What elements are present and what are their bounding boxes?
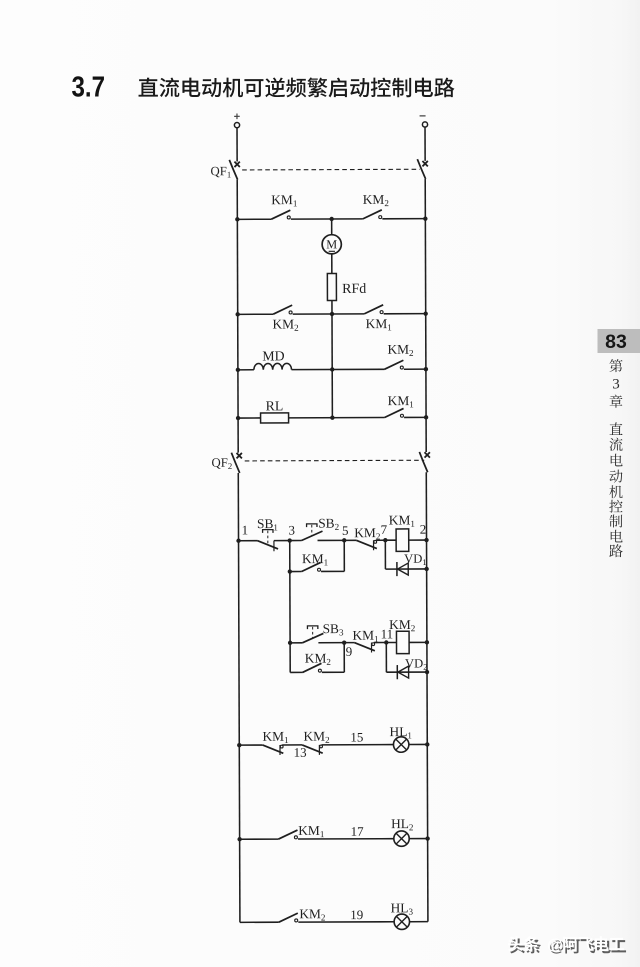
positive supply terminal + bbox=[234, 114, 240, 128]
node junction HL1 left rail bbox=[237, 743, 241, 747]
wire KM2 to node 7 bbox=[376, 539, 385, 541]
node junction left rail row4 bbox=[236, 416, 240, 420]
inductor MD bbox=[254, 363, 292, 369]
lamp HL1 bbox=[393, 737, 408, 752]
contact KM2 normally closed HL1 bbox=[302, 745, 323, 755]
contact KM2 self-hold bbox=[302, 663, 321, 672]
right rail wire row1 to QF2 bbox=[424, 219, 427, 452]
svg-text:9: 9 bbox=[346, 644, 353, 659]
watermark 头条@阿飞电工 bbox=[510, 938, 626, 955]
wire KM1 to node 11 bbox=[374, 642, 386, 644]
wire VD2 branch horizontal bbox=[386, 671, 427, 673]
right rail wire rung2 to bottom bbox=[427, 642, 428, 921]
node junction left rail row3 bbox=[236, 368, 240, 372]
node junction rung2 right rail bbox=[425, 640, 429, 644]
wire row3 rail to MD bbox=[238, 369, 254, 371]
contact KM2 normally closed rung1 bbox=[356, 540, 377, 550]
wire coil KM2 to right rail bbox=[409, 641, 427, 643]
node 3 junction bbox=[288, 538, 292, 542]
wire lamp HL2 to right rail bbox=[409, 838, 428, 840]
svg-text:RL: RL bbox=[266, 398, 284, 413]
wire node11 to coil KM2 bbox=[386, 641, 396, 643]
wire row4 RL to KM1 bbox=[289, 417, 385, 419]
wire SB1 to node 3 bbox=[274, 540, 290, 542]
node junction rung2 left bbox=[288, 641, 292, 645]
pushbutton SB1 normally closed bbox=[257, 530, 278, 552]
svg-text:15: 15 bbox=[350, 729, 363, 744]
wire SB3 to node 9 bbox=[318, 642, 344, 644]
contact KM2 row1 bbox=[363, 210, 382, 219]
pushbutton SB2 normally open bbox=[301, 524, 322, 541]
wire rung2 node down to self-hold bbox=[289, 643, 291, 673]
wire row1 left segment bbox=[237, 218, 271, 220]
wire rung2 node to SB3 bbox=[290, 642, 302, 644]
svg-text:13: 13 bbox=[294, 745, 307, 760]
circuit breaker QF1 left pole bbox=[229, 160, 240, 180]
resistor RFd bbox=[327, 273, 336, 300]
wire node7 down to VD1 bbox=[384, 540, 386, 569]
node junction center row3 bbox=[330, 367, 334, 371]
wire node9 to KM1 contact bbox=[344, 642, 354, 644]
node junction HL1 right rail bbox=[425, 742, 429, 746]
wire branch down to rung2 bbox=[289, 572, 291, 643]
circuit breaker QF1 right pole bbox=[417, 159, 428, 179]
wire self-hold left segment bbox=[290, 571, 302, 573]
svg-text:M: M bbox=[326, 237, 337, 251]
node 11 junction bbox=[384, 640, 388, 644]
contact KM1 normally closed rung2 bbox=[354, 643, 375, 653]
lamp HL3 bbox=[394, 914, 409, 929]
node 2 junction bbox=[424, 538, 428, 542]
wire row3 right segment bbox=[404, 368, 426, 370]
wire node7 to coil KM1 bbox=[385, 539, 396, 541]
circuit breaker QF2 left pole bbox=[231, 453, 242, 473]
wire from - terminal to QF1 bbox=[424, 127, 426, 161]
svg-text:3: 3 bbox=[612, 377, 620, 393]
wire node3 to SB2 bbox=[290, 540, 302, 542]
node junction HL2 right rail bbox=[425, 836, 429, 840]
left rail wire QF2 to control rung1 bbox=[237, 473, 239, 541]
page number box 83 bbox=[598, 329, 640, 353]
coil KM1 bbox=[396, 529, 409, 551]
svg-text:1: 1 bbox=[242, 522, 249, 537]
svg-text:RFd: RFd bbox=[342, 282, 366, 297]
wire VD1 branch horizontal bbox=[385, 568, 426, 570]
wire HL2 rail to KM1 bbox=[240, 838, 279, 840]
node junction motor top row1 bbox=[329, 217, 333, 221]
wire from + terminal to QF1 bbox=[236, 128, 238, 162]
node 7 junction bbox=[383, 538, 387, 542]
wire HL3 rail to KM2 bbox=[240, 921, 279, 923]
wire HL1 rail to KM1 bbox=[239, 744, 262, 746]
negative supply terminal - bbox=[420, 116, 428, 127]
svg-text:83: 83 bbox=[605, 331, 627, 353]
node junction center row4 bbox=[330, 415, 334, 419]
wire motor to RFd bbox=[331, 254, 333, 274]
right rail wire QF2 to rung1 bbox=[425, 472, 427, 540]
wire KM2 to lamp HL1 bbox=[322, 744, 394, 746]
left rail wire QF1 to row1 bbox=[236, 180, 238, 220]
node junction center row2 bbox=[330, 312, 334, 316]
contact KM2 row2 bbox=[273, 305, 292, 314]
wire row3 MD to KM2 bbox=[292, 368, 385, 370]
wire lamp HL1 to right rail bbox=[409, 743, 428, 745]
wire row1 middle segment bbox=[291, 218, 363, 220]
node junction left rail row1 bbox=[235, 217, 239, 221]
node junction VD2 right rail bbox=[425, 670, 429, 674]
contact KM1 row4 bbox=[385, 408, 404, 417]
wire motor branch upper bbox=[331, 219, 333, 235]
right rail wire QF1 to row1 bbox=[424, 179, 426, 219]
wire row4 right segment bbox=[404, 416, 426, 418]
node junction right rail row1 bbox=[423, 216, 427, 220]
wire RFd to row2 bbox=[331, 300, 333, 313]
chapter sidebar text 第3章 直流电动机控制电路 bbox=[609, 359, 622, 557]
svg-text:3: 3 bbox=[288, 523, 295, 538]
lamp HL2 bbox=[394, 831, 409, 846]
svg-text:5: 5 bbox=[342, 523, 349, 538]
wire row4 rail to RL bbox=[238, 417, 260, 419]
right rail wire rung1 to rung2 bbox=[426, 540, 428, 642]
circuit breaker QF2 right pole bbox=[419, 452, 430, 472]
wire row1 right segment bbox=[382, 218, 425, 220]
wire KM1 to lamp HL2 bbox=[298, 838, 394, 840]
title text 直流电动机可逆频繁启动控制电路 bbox=[139, 77, 455, 97]
QF2 linkage dashed line bbox=[245, 459, 424, 462]
wire node5 to KM2 contact bbox=[344, 539, 356, 541]
contact KM1 row2 bbox=[364, 305, 383, 314]
svg-text:2: 2 bbox=[420, 522, 427, 537]
wire lamp HL3 to right rail bbox=[409, 921, 428, 923]
wire self-hold up to node5 bbox=[343, 540, 345, 571]
contact KM2 row3 bbox=[384, 360, 403, 369]
left rail wire row1 to QF2 bbox=[236, 219, 239, 452]
node 9 junction bbox=[342, 640, 346, 644]
svg-text:17: 17 bbox=[351, 824, 365, 839]
svg-text:3.7: 3.7 bbox=[72, 72, 106, 104]
svg-text:MD: MD bbox=[262, 348, 284, 363]
node junction right rail row4 bbox=[424, 415, 428, 419]
center vertical wire row2 to row4 bbox=[331, 314, 333, 418]
wire KM2 self-hold right segment bbox=[322, 671, 344, 673]
contact KM1 normally closed HL1 bbox=[263, 745, 284, 755]
node junction self-hold KM1 bbox=[288, 569, 292, 573]
wire KM2 to lamp HL3 bbox=[298, 921, 394, 923]
QF1 linkage dashed line bbox=[242, 168, 420, 171]
wire node3 down to self-hold branch bbox=[289, 541, 291, 572]
svg-text:@: @ bbox=[547, 936, 563, 953]
wire row2 left segment bbox=[238, 313, 273, 315]
contact KM1 row1 bbox=[271, 210, 290, 219]
node 1 junction bbox=[236, 539, 240, 543]
wire coil KM1 to node 2 bbox=[409, 539, 427, 541]
svg-text:7: 7 bbox=[381, 522, 388, 537]
wire KM2 self-hold left segment bbox=[290, 671, 302, 673]
diode VD1 bbox=[397, 562, 408, 576]
contact KM1 normally open HL2 bbox=[278, 830, 297, 839]
node junction right rail row3 bbox=[424, 367, 428, 371]
pushbutton SB3 normally open bbox=[302, 626, 323, 643]
wire between KM1 and KM2 HL1 bbox=[282, 744, 302, 746]
resistor RL bbox=[261, 413, 289, 423]
diode VD2 bbox=[397, 665, 408, 679]
node junction right rail row2 bbox=[423, 311, 427, 315]
left rail wire rung1 to bottom bbox=[239, 541, 240, 923]
motor M bbox=[322, 235, 341, 254]
coil KM2 bbox=[396, 631, 409, 653]
node junction VD1 right rail bbox=[424, 567, 428, 571]
contact KM2 normally open HL3 bbox=[279, 913, 298, 922]
contact KM1 self-hold bbox=[302, 562, 321, 571]
wire row2 right segment bbox=[384, 313, 426, 315]
node 5 junction bbox=[342, 538, 346, 542]
node junction left rail row2 bbox=[235, 312, 239, 316]
wire rung1 rail to SB1 bbox=[239, 540, 258, 542]
wire node11 down to VD2 bbox=[385, 643, 387, 673]
wire self-hold right segment bbox=[321, 570, 344, 572]
wire SB2 to node 5 bbox=[318, 539, 345, 541]
wire row2 middle segment bbox=[293, 313, 364, 315]
svg-text:19: 19 bbox=[350, 907, 363, 922]
wire self-hold up to node9 bbox=[343, 643, 345, 673]
node junction HL2 left rail bbox=[237, 837, 241, 841]
